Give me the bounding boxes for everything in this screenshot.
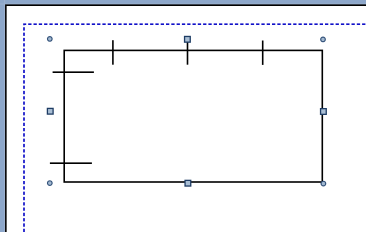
selection handle circle bottom-left: [48, 181, 53, 186]
window frame left strip: [0, 0, 5, 232]
component body rectangle: [64, 50, 322, 182]
selection handle circle top-right: [321, 37, 326, 42]
selection handle square right-middle: [321, 109, 327, 115]
frame highlight left: [3, 0, 6, 232]
window frame top strip: [0, 0, 366, 4]
selection handle circle bottom-right: [321, 181, 326, 186]
pin tick 3 (top edge): [262, 41, 264, 65]
pin tick 2 (top edge): [187, 40, 189, 64]
selection handle square left-middle: [47, 108, 53, 114]
pin line 2 (left edge): [50, 162, 92, 164]
selection handle square bottom-middle: [185, 180, 191, 186]
pin line 1 (left edge): [53, 71, 94, 73]
pin tick 1 (top edge): [112, 40, 114, 64]
selection handle square top-middle: [185, 36, 191, 42]
frame highlight top: [0, 3, 366, 6]
selection handle circle top-left: [48, 37, 53, 42]
